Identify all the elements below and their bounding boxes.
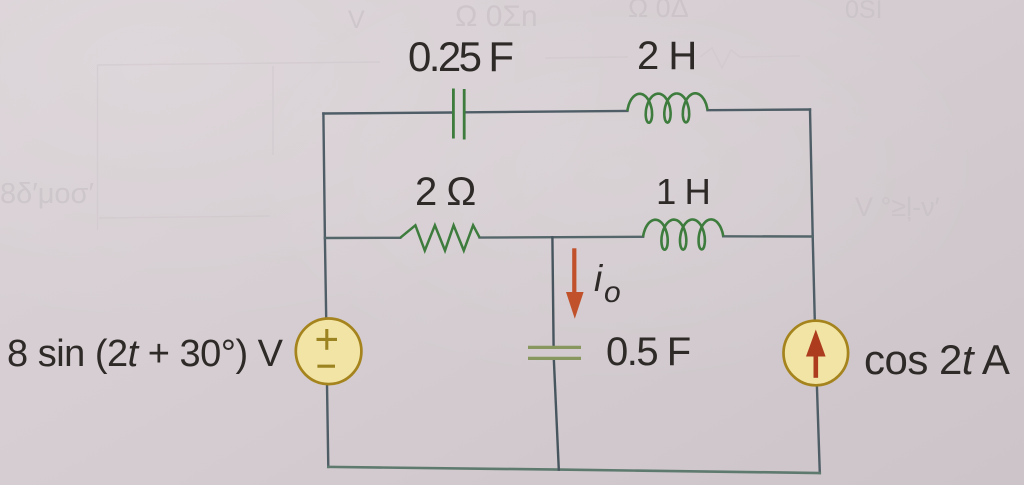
svg-text:0SI: 0SI xyxy=(845,0,883,24)
svg-text:i: i xyxy=(594,258,604,299)
svg-text:Ω 0Δ: Ω 0Δ xyxy=(628,0,689,23)
svg-text:V: V xyxy=(348,6,365,34)
svg-text:1 H: 1 H xyxy=(656,171,710,212)
svg-text:0.25 F: 0.25 F xyxy=(408,33,512,80)
svg-text:2 H: 2 H xyxy=(637,34,696,78)
svg-text:o: o xyxy=(604,276,621,309)
svg-text:cos 2t A: cos 2t A xyxy=(864,336,1010,383)
svg-text:Ω 0Σn: Ω 0Σn xyxy=(455,0,538,33)
svg-text:V °≥ļ-ν′: V °≥ļ-ν′ xyxy=(855,192,940,222)
svg-text:΋8δ′μοσ′: ΋8δ′μοσ′ xyxy=(0,178,94,210)
svg-text:0.5 F: 0.5 F xyxy=(606,330,690,374)
svg-text:2 Ω: 2 Ω xyxy=(415,170,475,214)
svg-text:8 sin (2t + 30°) V: 8 sin (2t + 30°) V xyxy=(7,333,284,375)
